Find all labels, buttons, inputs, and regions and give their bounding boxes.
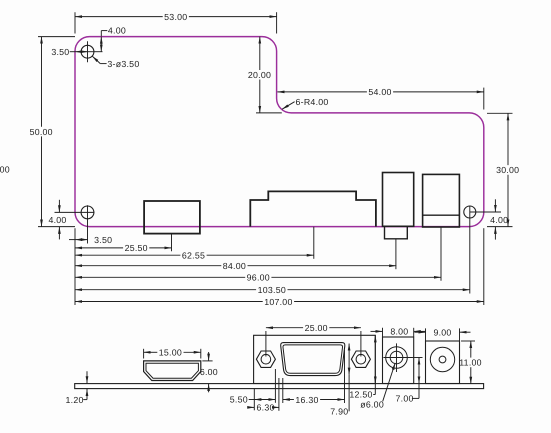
- USB connector (side view): [383, 337, 414, 384]
- dimension 7.00 (USB center height): [396, 358, 423, 404]
- dimension 6.00 (HDMI height): [200, 352, 218, 392]
- svg-text:6.00: 6.00: [200, 367, 218, 377]
- extension lines VGA bottom dims: [254, 350, 344, 411]
- dimension 7.90 (VGA D-sub height): [330, 344, 349, 417]
- USB connector footprint (top view): [383, 173, 414, 239]
- VGA connector footprint (top view): [250, 191, 376, 226]
- svg-text:00: 00: [0, 164, 10, 174]
- dimension 3.50 (top-left hole from left edge): [51, 47, 102, 57]
- svg-text:25.50: 25.50: [125, 243, 148, 253]
- svg-text:4.00: 4.00: [48, 215, 66, 225]
- label 6-R4.00 (corner radius callout): [282, 97, 328, 109]
- svg-text:15.00: 15.00: [159, 348, 182, 358]
- clipped dimension text at left margin: [0, 164, 10, 174]
- dimension 30.00 (right section height): [487, 113, 519, 226]
- svg-text:54.00: 54.00: [368, 87, 391, 97]
- dimension 107.00 (stacked): [75, 297, 484, 307]
- mounting hole top-left: [81, 41, 94, 62]
- svg-text:16.30: 16.30: [295, 395, 318, 405]
- svg-text:3.50: 3.50: [94, 235, 112, 245]
- svg-text:5.50: 5.50: [230, 394, 248, 404]
- DC power jack (side view): [426, 341, 460, 384]
- dimension 4.00 (bottom-right hole from bottom edge): [472, 199, 508, 239]
- dimension 53.00 (top): [75, 12, 277, 34]
- VGA screw post right (hex): [351, 351, 370, 367]
- dimension 54.00 (upper right width): [277, 87, 483, 109]
- svg-text:25.00: 25.00: [305, 323, 328, 333]
- svg-text:7.90: 7.90: [330, 407, 348, 417]
- svg-text:6.30: 6.30: [257, 403, 275, 413]
- dimension 103.50 (stacked): [75, 285, 470, 295]
- svg-text:4.00: 4.00: [108, 26, 126, 36]
- PCB board outline (top view): [75, 37, 484, 227]
- PCB board strip (side view): [75, 384, 484, 389]
- svg-text:53.00: 53.00: [164, 12, 187, 22]
- svg-text:103.50: 103.50: [258, 285, 286, 295]
- extension line USB center: [395, 239, 397, 269]
- dimension 25.00 (VGA post spacing): [266, 323, 361, 357]
- svg-text:62.55: 62.55: [182, 251, 205, 261]
- HDMI connector footprint (top view): [144, 201, 200, 234]
- extension line right edge: [483, 228, 485, 305]
- svg-text:30.00: 30.00: [496, 165, 519, 175]
- dimension 3.50 (stacked): [69, 235, 112, 245]
- extension line left edge (stacked dims): [74, 228, 76, 305]
- svg-text:7.00: 7.00: [396, 394, 414, 404]
- extension line VGA center: [313, 227, 315, 259]
- VGA connector flange (side view): [254, 335, 376, 383]
- HDMI connector (side view): [144, 361, 201, 381]
- dimension 16.30 (VGA D-sub width): [283, 395, 345, 405]
- DC power jack footprint (top view): [423, 174, 460, 227]
- svg-text:1.20: 1.20: [66, 395, 84, 405]
- svg-text:20.00: 20.00: [248, 70, 271, 80]
- svg-text:84.00: 84.00: [223, 261, 246, 271]
- dimension 8.00 (USB width): [371, 326, 426, 336]
- svg-text:96.00: 96.00: [247, 273, 270, 283]
- svg-text:6-R4.00: 6-R4.00: [296, 97, 329, 107]
- dimension 11.00 (jack height): [459, 341, 482, 384]
- dimension 1.20 (board thickness): [66, 371, 87, 405]
- label ø6.00 (USB inner diameter): [360, 363, 395, 410]
- dimension 9.00 (jack width): [415, 327, 471, 340]
- svg-text:107.00: 107.00: [264, 297, 292, 307]
- dimension 25.50 (stacked): [75, 243, 172, 253]
- dimension 62.55 (stacked): [75, 251, 314, 261]
- dimension 12.50 (VGA flange height): [349, 335, 375, 399]
- VGA D-sub shell (side view): [281, 343, 345, 376]
- label 3-ø3.50 (hole callout): [92, 56, 139, 69]
- dimension 96.00 (stacked): [75, 273, 441, 283]
- svg-text:11.00: 11.00: [459, 358, 482, 368]
- VGA screw post left (hex): [256, 351, 275, 367]
- mounting hole bottom-left: [55, 205, 95, 243]
- svg-text:9.00: 9.00: [433, 327, 451, 337]
- extension line jack center: [440, 227, 442, 281]
- svg-text:4.00: 4.00: [490, 215, 508, 225]
- dimension 5.50 (VGA): [230, 394, 276, 404]
- svg-text:12.50: 12.50: [349, 390, 372, 400]
- svg-text:ø6.00: ø6.00: [360, 399, 384, 409]
- svg-text:3.50: 3.50: [51, 47, 69, 57]
- dimension 15.00 (HDMI width): [144, 348, 201, 359]
- dimension 6.30 (VGA): [249, 403, 279, 413]
- dimension 4.00 (top-left hole from top edge): [101, 26, 126, 52]
- svg-text:50.00: 50.00: [30, 127, 53, 137]
- dimension 20.00 (step height): [248, 37, 282, 113]
- svg-text:8.00: 8.00: [390, 326, 408, 336]
- dimension 84.00 (stacked): [75, 261, 396, 271]
- svg-text:3-ø3.50: 3-ø3.50: [107, 59, 139, 69]
- dimension 4.00 (bottom-left hole from bottom edge): [48, 200, 66, 240]
- dimension 50.00 (board height): [30, 37, 75, 227]
- extension line HDMI center: [171, 234, 173, 252]
- mounting hole bottom-right: [464, 206, 501, 294]
